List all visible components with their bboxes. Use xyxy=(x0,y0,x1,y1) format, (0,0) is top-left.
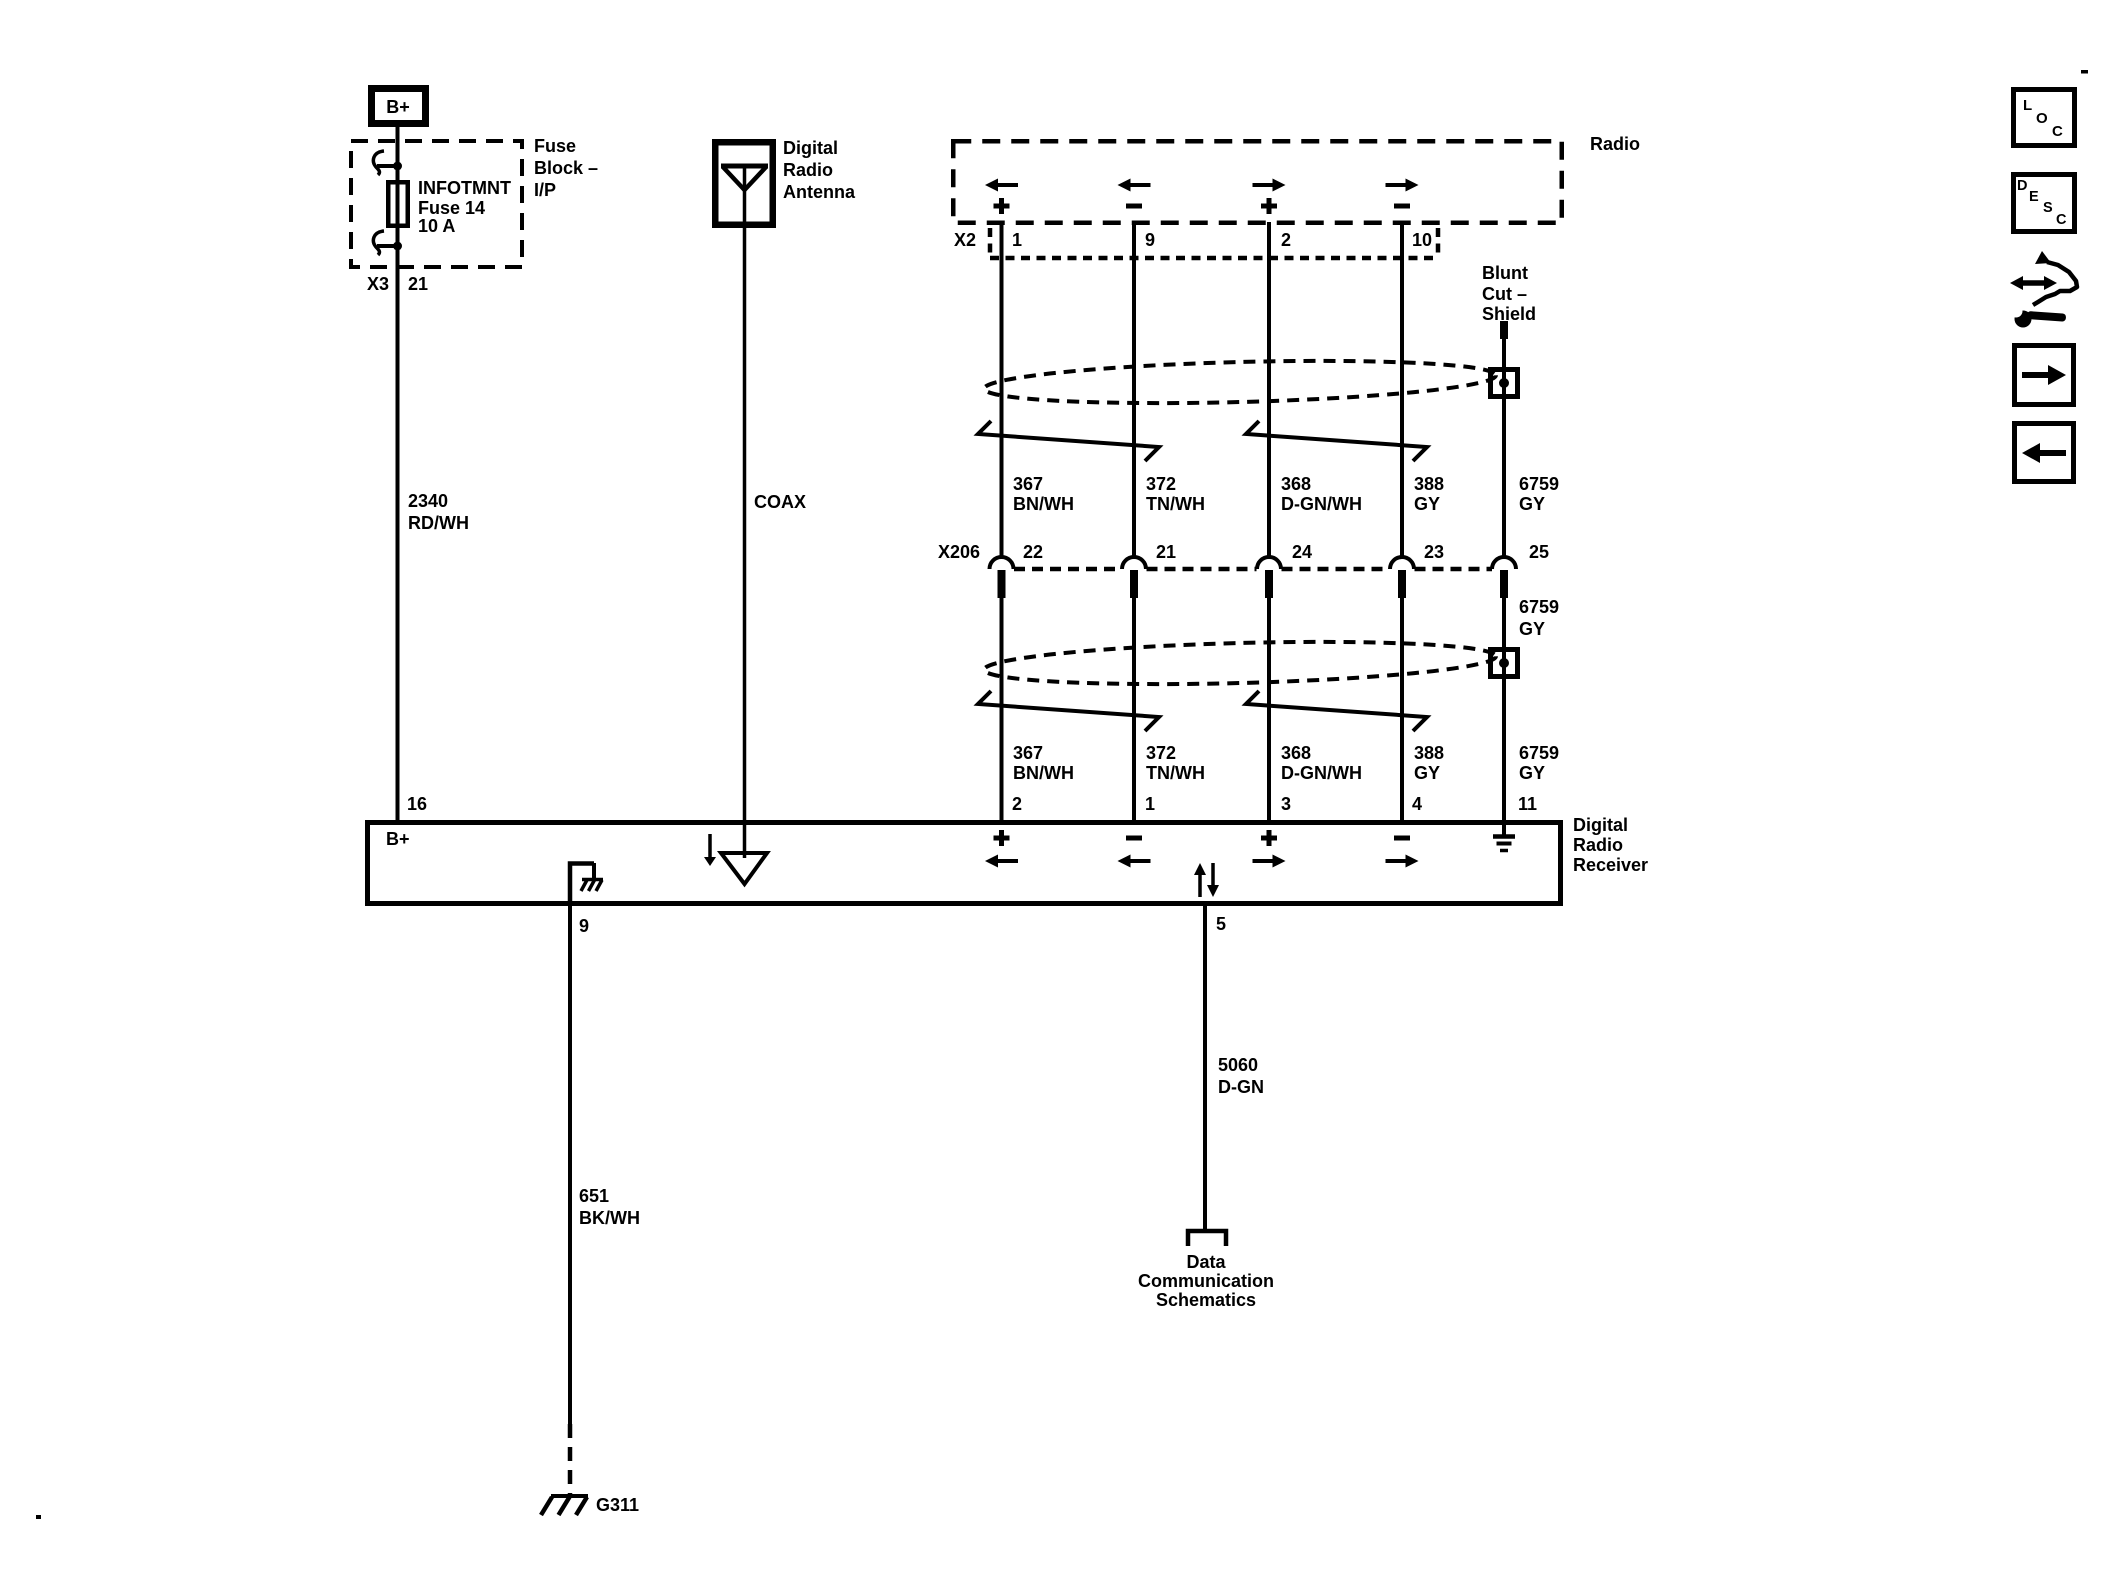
svg-text:2: 2 xyxy=(1281,230,1291,250)
svg-text:Radio: Radio xyxy=(1573,835,1623,855)
svg-text:5: 5 xyxy=(1216,914,1226,934)
svg-text:Digital: Digital xyxy=(783,138,838,158)
svg-text:I/P: I/P xyxy=(534,180,556,200)
svg-text:22: 22 xyxy=(1023,542,1043,562)
svg-text:21: 21 xyxy=(408,274,428,294)
svg-text:23: 23 xyxy=(1424,542,1444,562)
svg-text:D: D xyxy=(2017,178,2027,194)
svg-text:Antenna: Antenna xyxy=(783,182,856,202)
svg-text:2340: 2340 xyxy=(408,491,448,511)
svg-text:RD/WH: RD/WH xyxy=(408,513,469,533)
svg-text:D-GN/WH: D-GN/WH xyxy=(1281,763,1362,783)
svg-text:Blunt: Blunt xyxy=(1482,263,1528,283)
svg-text:B+: B+ xyxy=(386,97,410,117)
svg-text:GY: GY xyxy=(1519,494,1545,514)
svg-text:368: 368 xyxy=(1281,743,1311,763)
svg-text:367: 367 xyxy=(1013,743,1043,763)
svg-text:E: E xyxy=(2029,189,2039,205)
svg-text:X2: X2 xyxy=(954,230,976,250)
svg-text:Fuse: Fuse xyxy=(534,136,576,156)
svg-text:INFOTMNT: INFOTMNT xyxy=(418,178,511,198)
svg-text:21: 21 xyxy=(1156,542,1176,562)
svg-text:6759: 6759 xyxy=(1519,743,1559,763)
svg-text:L: L xyxy=(2023,97,2032,114)
svg-text:C: C xyxy=(2052,123,2063,140)
svg-text:367: 367 xyxy=(1013,474,1043,494)
svg-text:10 A: 10 A xyxy=(418,216,455,236)
svg-text:X206: X206 xyxy=(938,542,980,562)
svg-text:25: 25 xyxy=(1529,542,1549,562)
svg-text:TN/WH: TN/WH xyxy=(1146,494,1205,514)
svg-text:372: 372 xyxy=(1146,474,1176,494)
svg-text:B+: B+ xyxy=(386,829,410,849)
svg-text:Radio: Radio xyxy=(1590,134,1640,154)
svg-text:O: O xyxy=(2036,110,2048,127)
svg-text:16: 16 xyxy=(407,794,427,814)
svg-text:Block –: Block – xyxy=(534,158,598,178)
svg-text:COAX: COAX xyxy=(754,492,806,512)
svg-text:BN/WH: BN/WH xyxy=(1013,494,1074,514)
svg-text:Data: Data xyxy=(1186,1252,1226,1272)
svg-text:10: 10 xyxy=(1412,230,1432,250)
svg-text:TN/WH: TN/WH xyxy=(1146,763,1205,783)
svg-text:BK/WH: BK/WH xyxy=(579,1208,640,1228)
svg-text:D-GN: D-GN xyxy=(1218,1077,1264,1097)
svg-text:6759: 6759 xyxy=(1519,474,1559,494)
svg-text:11: 11 xyxy=(1518,794,1537,814)
svg-text:Communication: Communication xyxy=(1138,1271,1274,1291)
svg-text:GY: GY xyxy=(1414,763,1440,783)
svg-text:651: 651 xyxy=(579,1186,609,1206)
svg-text:BN/WH: BN/WH xyxy=(1013,763,1074,783)
svg-text:24: 24 xyxy=(1292,542,1312,562)
svg-text:372: 372 xyxy=(1146,743,1176,763)
svg-text:5060: 5060 xyxy=(1218,1055,1258,1075)
svg-text:GY: GY xyxy=(1414,494,1440,514)
svg-text:368: 368 xyxy=(1281,474,1311,494)
svg-text:388: 388 xyxy=(1414,743,1444,763)
svg-text:X3: X3 xyxy=(367,274,389,294)
svg-text:C: C xyxy=(2056,212,2067,228)
svg-text:9: 9 xyxy=(579,916,589,936)
svg-text:Schematics: Schematics xyxy=(1156,1290,1256,1310)
svg-text:Digital: Digital xyxy=(1573,815,1628,835)
svg-text:Receiver: Receiver xyxy=(1573,855,1648,875)
svg-text:1: 1 xyxy=(1145,794,1155,814)
svg-text:Radio: Radio xyxy=(783,160,833,180)
svg-text:D-GN/WH: D-GN/WH xyxy=(1281,494,1362,514)
svg-text:Fuse 14: Fuse 14 xyxy=(418,198,485,218)
svg-text:3: 3 xyxy=(1281,794,1291,814)
svg-text:6759: 6759 xyxy=(1519,597,1559,617)
svg-text:Cut –: Cut – xyxy=(1482,284,1527,304)
svg-text:4: 4 xyxy=(1412,794,1422,814)
svg-text:Shield: Shield xyxy=(1482,304,1536,324)
svg-text:GY: GY xyxy=(1519,763,1545,783)
svg-text:1: 1 xyxy=(1012,230,1022,250)
svg-text:9: 9 xyxy=(1145,230,1155,250)
svg-text:2: 2 xyxy=(1012,794,1022,814)
svg-text:GY: GY xyxy=(1519,619,1545,639)
svg-text:S: S xyxy=(2043,200,2053,216)
svg-text:388: 388 xyxy=(1414,474,1444,494)
svg-text:G311: G311 xyxy=(596,1495,639,1515)
